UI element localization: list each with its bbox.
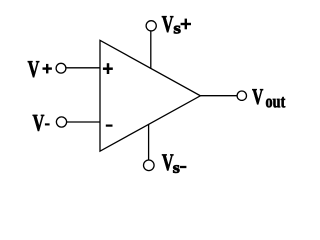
op-amp non-inverting input marker +: [103, 63, 113, 74]
wire: V- input terminal to op-amp: [66, 121, 100, 123]
label Vs- : letter V: [162, 154, 173, 170]
op-amp U1 triangle body: [100, 40, 200, 151]
terminal circle: Vout output: [237, 91, 246, 100]
label Vs- : minus sign: [180, 166, 186, 168]
terminal circle: V- input: [56, 117, 66, 127]
label Vs+ : subscript s: [174, 26, 180, 34]
label Vout : subscript out: [266, 97, 285, 108]
label V- : letter V: [33, 115, 44, 131]
wire: Vs+ supply terminal down to op-amp top edge: [150, 31, 152, 69]
label Vs+ : letter V: [162, 16, 173, 32]
label V- : minus sign: [45, 123, 50, 125]
terminal circle: Vs+ supply: [146, 21, 156, 31]
label Vs- : subscript s: [173, 165, 179, 173]
label Vout : letter V: [252, 89, 263, 104]
label V+ : letter V: [28, 61, 39, 77]
wire: op-amp output to Vout terminal: [201, 95, 237, 97]
wire: Vs- supply terminal up to op-amp bottom edge: [148, 124, 150, 160]
label V+ : plus sign: [43, 64, 52, 74]
terminal circle: V+ input: [56, 63, 66, 73]
op-amp inverting input marker -: [106, 124, 113, 126]
wire: V+ input terminal to op-amp: [66, 67, 100, 69]
terminal circle: Vs- supply: [144, 160, 155, 171]
label Vs+ : plus sign: [181, 19, 191, 30]
